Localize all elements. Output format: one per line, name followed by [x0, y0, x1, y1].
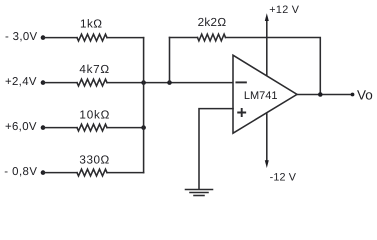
resistor R 1kOhm — [77, 34, 107, 41]
op-amp inverting input minus sign — [236, 81, 246, 83]
wire summing bus vertical — [143, 38, 145, 173]
node IN4 terminal dot — [41, 170, 46, 175]
junction dot feedback branch — [167, 80, 172, 85]
wire IN1 to R1 — [43, 37, 77, 39]
op-amp U1 LM741 body — [233, 55, 297, 133]
wire op-amp output — [297, 94, 353, 96]
wire R2 to op-amp inverting input — [107, 82, 233, 84]
junction dot bus/inverting wire — [141, 80, 146, 85]
svg-text:+6,0V: +6,0V — [5, 121, 37, 133]
node output terminal dot — [351, 93, 355, 97]
node IN1 terminal dot — [41, 35, 46, 40]
wire R4 to bus — [107, 172, 144, 174]
wire R3 to bus — [107, 127, 144, 129]
svg-text:-12 V: -12 V — [270, 172, 297, 184]
wire IN3 to R3 — [43, 127, 77, 129]
node IN3 terminal dot — [41, 125, 46, 130]
wire non-inverting input to ground — [199, 109, 233, 189]
svg-text:+2,4V: +2,4V — [5, 76, 37, 88]
junction dot bus row3 — [141, 125, 146, 130]
svg-text:1kΩ: 1kΩ — [80, 18, 102, 31]
svg-text:+12 V: +12 V — [269, 4, 300, 16]
wire feedback branch vertical — [169, 38, 171, 83]
wire R1 to bus — [107, 37, 144, 39]
svg-text:- 3,0V: - 3,0V — [5, 31, 38, 43]
svg-text:4k7Ω: 4k7Ω — [79, 63, 109, 76]
wire IN2 to R2 — [43, 82, 77, 84]
svg-text:2k2Ω: 2k2Ω — [198, 16, 227, 29]
svg-text:Vo: Vo — [357, 88, 373, 103]
wire R5 to output node — [226, 38, 321, 95]
wire IN4 to R4 — [43, 172, 77, 174]
svg-text:10kΩ: 10kΩ — [79, 109, 110, 122]
resistor R 4k7Ohm — [77, 79, 107, 86]
svg-text:LM741: LM741 — [244, 90, 278, 102]
power rail V+ V- vertical line — [266, 19, 268, 163]
svg-text:- 0,8V: - 0,8V — [4, 166, 37, 178]
node IN2 terminal dot — [41, 80, 46, 85]
op-amp non-inverting input plus sign — [238, 109, 245, 116]
ground symbol — [186, 190, 213, 196]
wire feedback to R5 — [170, 37, 198, 39]
resistor R 330Ohm — [77, 169, 107, 176]
junction dot feedback/output — [318, 92, 323, 97]
resistor R 2k2Ohm feedback — [198, 34, 226, 41]
arrowhead -12V down — [265, 160, 269, 168]
svg-text:330Ω: 330Ω — [79, 153, 109, 166]
resistor R 10kOhm — [77, 124, 107, 131]
arrowhead +12V up — [265, 13, 269, 21]
